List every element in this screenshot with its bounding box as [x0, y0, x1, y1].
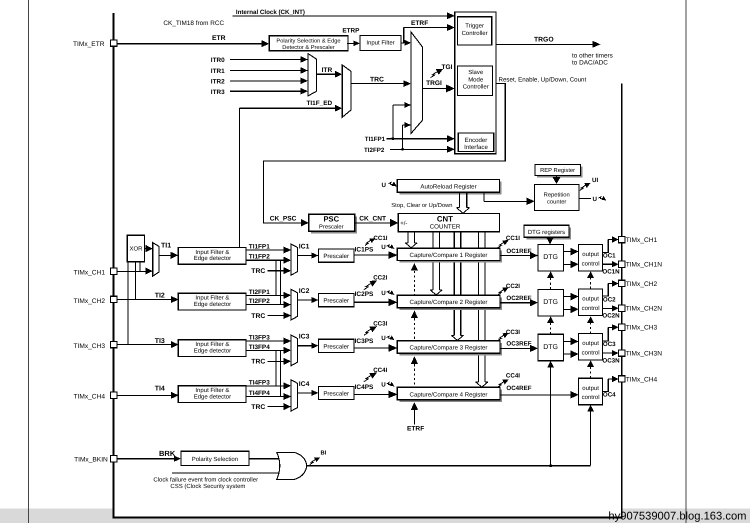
wire CSS to OR [172, 472, 284, 474]
svg-text:U: U [381, 335, 386, 342]
wire TI4FP3 [247, 385, 285, 387]
svg-text:U: U [382, 182, 387, 189]
wire IC2PS [354, 301, 390, 303]
bottom border [113, 517, 623, 519]
svg-text:IC2: IC2 [299, 288, 310, 295]
wire compare dashed to CC1 [411, 263, 418, 271]
svg-text:CC1I: CC1I [373, 235, 387, 242]
svg-text:ITR: ITR [322, 67, 333, 74]
wire TI2FP2 to mux [402, 125, 404, 149]
svg-text:CK_CNT: CK_CNT [359, 216, 386, 223]
block input filter & edge detector 1 [178, 247, 246, 264]
wire TRGI [422, 88, 447, 90]
wire compare dashed to CC3 [411, 356, 418, 364]
block output control 1 [579, 244, 603, 271]
trigger controller outer box [455, 12, 496, 154]
svg-text:TI4: TI4 [155, 386, 165, 393]
wire TI2 [117, 299, 172, 301]
register capture/compare 3 [397, 341, 502, 356]
svg-text:TRGO: TRGO [534, 37, 554, 44]
event CC2I right [498, 290, 504, 295]
svg-text:ITR0: ITR0 [211, 57, 225, 64]
svg-text:TI2FP2: TI2FP2 [364, 147, 385, 154]
block input filter [360, 35, 401, 50]
block repetition counter [535, 184, 579, 210]
event CC1I left [365, 240, 371, 245]
svg-text:to other timers: to other timers [572, 52, 613, 59]
mux TRC select [342, 65, 351, 117]
wire OC1N [603, 263, 614, 265]
svg-text:output: output [582, 341, 599, 347]
wire TI1FP1 top [387, 138, 448, 140]
svg-text:+/-: +/- [400, 220, 407, 227]
wire TI1FP2 [247, 259, 285, 261]
svg-text:Prescaler: Prescaler [323, 298, 349, 305]
svg-text:OC4REF: OC4REF [506, 385, 531, 392]
block encoder interface [458, 133, 494, 152]
pin TIMx_CH2 output [619, 280, 625, 286]
svg-text:output: output [582, 297, 599, 303]
block output control 2 [579, 289, 603, 316]
svg-text:CC4I: CC4I [373, 367, 387, 374]
wire compare dashed to CC2 [411, 310, 418, 318]
svg-text:Capture/Compare 2 Register: Capture/Compare 2 Register [410, 299, 488, 306]
pin TIMx_CH2N output [619, 305, 625, 311]
svg-text:ETR: ETR [212, 35, 226, 42]
svg-text:TIMx_CH4: TIMx_CH4 [626, 376, 658, 383]
svg-text:Internal Clock (CK_INT): Internal Clock (CK_INT) [236, 9, 305, 16]
svg-text:Edge detector: Edge detector [194, 393, 231, 400]
svg-text:Prescaler: Prescaler [323, 253, 349, 260]
svg-text:Slave: Slave [468, 69, 484, 76]
wire TIMx_CH1 to mux [117, 270, 146, 272]
wire OC3REF [500, 347, 531, 349]
wire polarity to OR [249, 458, 283, 460]
svg-text:Input Filter &: Input Filter & [195, 249, 229, 256]
wire TRC row2 [267, 315, 284, 317]
wire counter to capture/compare 4 (hollow) [478, 232, 480, 382]
wire DTG3 out b [563, 353, 571, 355]
svg-text:TRC: TRC [251, 313, 265, 320]
wire break dashed OC1 [590, 278, 592, 289]
svg-text:Input Filter &: Input Filter & [195, 295, 229, 302]
svg-text:control: control [582, 305, 600, 312]
pin TIMx_CH2 [110, 296, 116, 302]
wire DTG1 out b [563, 263, 571, 265]
svg-text:BRK: BRK [159, 449, 176, 458]
block input filter & edge detector 4 [178, 386, 246, 403]
block output control 3 [579, 334, 603, 361]
svg-text:OC3REF: OC3REF [506, 340, 531, 347]
wire XOR out [145, 248, 147, 250]
svg-text:output: output [582, 252, 599, 258]
event UI [580, 185, 586, 190]
svg-text:Detector & Prescaler: Detector & Prescaler [282, 44, 335, 51]
wire BRK [117, 458, 175, 460]
wire OC4 [603, 379, 609, 391]
svg-text:control: control [582, 260, 600, 267]
wire DTG1 out a [563, 251, 571, 253]
wire TRC row3 [267, 360, 284, 362]
wire XOR in from CH1 [139, 262, 141, 272]
block slave mode controller [458, 66, 493, 96]
block DTG 1 [538, 244, 563, 271]
svg-text:CK_PSC: CK_PSC [270, 215, 297, 222]
svg-text:Edge detector: Edge detector [194, 255, 231, 262]
svg-text:IC3: IC3 [299, 334, 310, 341]
svg-text:OC4: OC4 [603, 392, 616, 399]
event CC4I left [364, 375, 371, 381]
wire break to OC column [590, 405, 592, 466]
wire break dashed OC3 [590, 366, 592, 378]
mux trigger select [411, 32, 422, 134]
svg-text:TIMx_BKIN: TIMx_BKIN [74, 457, 108, 464]
wire TI4 [117, 394, 172, 396]
block XOR [127, 235, 144, 261]
svg-text:OC3: OC3 [603, 341, 616, 348]
left pin bus [113, 13, 115, 518]
wire break dashed OC2 [590, 322, 592, 333]
block input filter & edge detector 3 [178, 340, 246, 357]
svg-text:TIMx_CH2N: TIMx_CH2N [626, 306, 663, 313]
svg-text:Trigger: Trigger [465, 23, 484, 30]
pin TIMx_CH1N output [619, 261, 625, 267]
wire OC1REF [500, 255, 531, 257]
svg-text:output: output [582, 386, 599, 392]
diagram interior patch [115, 508, 622, 516]
svg-text:TIMx_CH1: TIMx_CH1 [626, 237, 658, 244]
svg-text:CSS (Clock Security system: CSS (Clock Security system [170, 483, 245, 490]
svg-text:Controller: Controller [462, 30, 488, 37]
svg-text:Input Filter: Input Filter [366, 40, 394, 47]
svg-text:Edge detector: Edge detector [194, 347, 231, 354]
wire TI1FP1 to mux [392, 105, 394, 139]
svg-text:Repetition: Repetition [544, 191, 570, 198]
svg-text:IC1PS: IC1PS [355, 246, 374, 253]
wire TRC row4 [267, 406, 284, 408]
wire IC1 [297, 255, 312, 257]
wire TRGO [496, 43, 593, 45]
wire TRC row1 [267, 270, 284, 272]
svg-text:Input Filter &: Input Filter & [195, 341, 229, 348]
pin TIMx_CH1 output [619, 236, 625, 242]
svg-text:TI1F_ED: TI1F_ED [307, 100, 333, 107]
svg-text:ITR1: ITR1 [211, 68, 225, 75]
svg-text:REP Register: REP Register [540, 167, 575, 174]
gray footer band [0, 508, 750, 523]
block prescaler 2 [318, 294, 354, 307]
pin TIMx_CH3N output [619, 350, 625, 356]
svg-text:DTG registers: DTG registers [528, 229, 565, 236]
svg-text:DTG: DTG [543, 344, 558, 351]
wire OC2REF [500, 302, 531, 304]
svg-text:AutoReload Register: AutoReload Register [420, 184, 476, 191]
wire IC3 [297, 345, 312, 347]
block DTG 3 [538, 334, 563, 361]
svg-text:ITR3: ITR3 [211, 89, 225, 96]
svg-text:TI3: TI3 [155, 338, 165, 345]
wire TI1FP1 [247, 249, 285, 251]
svg-text:ITR2: ITR2 [211, 78, 225, 85]
svg-text:OC2N: OC2N [602, 313, 620, 320]
svg-text:OC3N: OC3N [602, 357, 620, 364]
svg-text:ETRF: ETRF [407, 425, 424, 432]
wire IC3PS [354, 347, 390, 349]
wire TI3FP4/TI4FP3 link [275, 350, 277, 386]
svg-text:Reset, Enable, Up/Down, Count: Reset, Enable, Up/Down, Count [499, 76, 587, 83]
wire counter to capture/compare 2 (hollow) [432, 232, 434, 290]
wire ETRF to CC4 [411, 402, 418, 410]
svg-text:CC1I: CC1I [506, 235, 520, 242]
wire XOR in from CH2 [135, 262, 137, 300]
event U repetition [579, 197, 591, 199]
svg-text:COUNTER: COUNTER [430, 223, 461, 230]
wire CK_INT [233, 15, 448, 17]
svg-text:CC3I: CC3I [373, 321, 387, 328]
svg-text:ETRP: ETRP [342, 27, 360, 34]
block CNT counter [398, 213, 499, 231]
block polarity selection & edge detector & prescaler [269, 36, 348, 52]
block DTG 2 [538, 289, 563, 316]
wire XOR in from CH3 [127, 262, 129, 345]
svg-text:to DAC/ADC: to DAC/ADC [572, 59, 608, 66]
wire ETRF [401, 42, 404, 44]
wire TI1FP2/TI2FP1 link [275, 260, 277, 295]
mux ITR select [308, 54, 317, 96]
wire DTG registers to DTG1 [549, 237, 551, 238]
wire ETRP [347, 42, 355, 44]
svg-text:UI: UI [592, 177, 598, 184]
block polarity selection [181, 451, 249, 465]
wire TI4FP4 [247, 396, 285, 398]
event BI [310, 460, 316, 465]
right frame line [685, 0, 687, 523]
wire OC3 [603, 327, 609, 341]
block REP register [535, 165, 583, 178]
svg-text:CNT: CNT [437, 214, 453, 223]
wire DTG2 out a [563, 296, 571, 298]
event CC4I right [498, 382, 504, 387]
svg-text:TIMx_ETR: TIMx_ETR [73, 41, 105, 48]
svg-text:Prescaler: Prescaler [323, 391, 349, 398]
svg-text:Prescaler: Prescaler [319, 224, 344, 231]
svg-text:IC4PS: IC4PS [355, 384, 374, 391]
svg-text:TRC: TRC [251, 404, 265, 411]
mux IC1 select [291, 244, 297, 275]
svg-text:TIMx_CH2: TIMx_CH2 [73, 298, 105, 305]
pin TIMx_CH1 [110, 268, 116, 274]
wire IC4PS [354, 393, 390, 395]
svg-text:TIMx_CH4: TIMx_CH4 [73, 394, 105, 401]
svg-text:Capture/Compare 4 Register: Capture/Compare 4 Register [410, 391, 488, 398]
svg-text:Polarity Selection: Polarity Selection [192, 456, 238, 463]
mux TI1 select [153, 243, 159, 277]
svg-text:TGI: TGI [442, 64, 453, 71]
register capture/compare 4 [397, 387, 502, 402]
wire IC1PS [354, 254, 390, 256]
wire TI2FP2 [247, 304, 285, 306]
block prescaler 3 [318, 339, 354, 352]
svg-text:TIMx_CH3N: TIMx_CH3N [626, 351, 663, 358]
svg-text:OC2: OC2 [603, 296, 616, 303]
block prescaler 1 [318, 249, 354, 262]
gate OR break [277, 452, 307, 479]
svg-text:counter: counter [547, 200, 566, 206]
svg-text:OC1N: OC1N [602, 268, 620, 275]
svg-text:U: U [381, 290, 386, 297]
svg-text:IC2PS: IC2PS [355, 291, 374, 298]
svg-text:TIMx_CH1N: TIMx_CH1N [626, 262, 663, 269]
pin TIMx_CH4 output [619, 376, 625, 382]
wire counter to capture/compare 3 (hollow) [453, 232, 455, 336]
svg-text:Input Filter &: Input Filter & [195, 387, 229, 394]
wire TI2FP1/TI2FP2 link [279, 260, 281, 304]
svg-text:XOR: XOR [129, 246, 143, 253]
svg-text:TRGI: TRGI [426, 80, 442, 87]
mux IC3 select [291, 335, 297, 366]
block DTG registers [524, 225, 571, 239]
svg-text:IC3PS: IC3PS [355, 338, 374, 345]
svg-text:TRC: TRC [251, 359, 265, 366]
svg-text:Interface: Interface [464, 144, 488, 151]
svg-text:ETRF: ETRF [411, 20, 428, 27]
svg-text:TIMx_CH3: TIMx_CH3 [73, 343, 105, 350]
svg-text:TRC: TRC [370, 76, 384, 83]
block trigger controller [458, 17, 492, 45]
left frame line [28, 0, 30, 523]
svg-text:Capture/Compare 1 Register: Capture/Compare 1 Register [410, 252, 488, 259]
wire OC1 [603, 240, 609, 253]
svg-text:Stop, Clear or Up/Down: Stop, Clear or Up/Down [391, 202, 452, 209]
block input filter & edge detector 2 [178, 293, 246, 310]
wire OC2 [603, 284, 609, 297]
wire break to DTG column [550, 361, 552, 466]
wire BI [306, 465, 590, 467]
pin TIMx_CH4 [110, 392, 116, 398]
svg-text:IC4: IC4 [299, 381, 310, 388]
wire IC2 [297, 299, 312, 301]
wire ITR1 [230, 70, 301, 72]
wire TI3FP4 [247, 349, 285, 351]
pin TIMx_CH3 output [619, 324, 625, 330]
wire CK_PSC feed [263, 84, 505, 223]
block auto-reload register [397, 180, 502, 195]
mux IC2 select [291, 289, 297, 320]
wire DTG3 out a [563, 340, 571, 342]
svg-text:control: control [582, 350, 600, 357]
wire TI2FP2 top [390, 148, 448, 150]
block PSC prescaler [309, 214, 357, 233]
svg-text:BI: BI [321, 450, 327, 456]
svg-text:CC2I: CC2I [373, 275, 387, 282]
register capture/compare 2 [397, 295, 502, 310]
wire autoreload to repetition counter [483, 192, 485, 201]
event CC1I right [498, 243, 504, 248]
wire REP to repetition counter [556, 176, 558, 178]
wire break dashed DTG2 [550, 322, 552, 334]
wire ETR [117, 43, 263, 45]
svg-text:TIMx_CH2: TIMx_CH2 [626, 281, 658, 288]
mux IC4 select [291, 380, 297, 411]
svg-text:OC1REF: OC1REF [506, 248, 531, 255]
wire OC4REF [500, 394, 571, 396]
event CC2I left [364, 283, 371, 289]
svg-text:control: control [582, 394, 600, 401]
pin TIMx_ETR [110, 40, 116, 46]
wire TI1F_ED [239, 108, 241, 247]
wire TI3FP4/TI4FP4 link [279, 350, 281, 396]
svg-text:CC4I: CC4I [506, 373, 520, 380]
svg-text:IC1: IC1 [299, 244, 310, 251]
svg-text:TIMx_CH1: TIMx_CH1 [73, 270, 105, 277]
svg-text:Prescaler: Prescaler [323, 343, 349, 350]
pin TIMx_BKIN [110, 456, 116, 462]
wire autoreload to counter [458, 192, 460, 208]
event TGI [431, 72, 438, 78]
wire ITR2 [230, 80, 301, 82]
svg-text:U: U [593, 196, 598, 203]
svg-text:TRC: TRC [251, 268, 265, 275]
wire IC4 [297, 392, 312, 394]
svg-text:OC2REF: OC2REF [506, 295, 531, 302]
pin TIMx_CH3 [110, 341, 116, 347]
wire TI2FP1 [247, 294, 285, 296]
svg-text:PSC: PSC [323, 215, 339, 224]
right pin bus [621, 84, 623, 518]
svg-text:Polarity Selection & Edge: Polarity Selection & Edge [276, 38, 340, 45]
svg-text:CC2I: CC2I [506, 283, 520, 290]
svg-text:hy907539007.blog.163.com: hy907539007.blog.163.com [608, 510, 746, 522]
svg-text:U: U [381, 382, 386, 389]
wire ITR0 [230, 59, 301, 61]
wire OC3N [603, 352, 614, 354]
svg-text:OC1: OC1 [603, 253, 616, 260]
block output control 4 [579, 378, 603, 405]
svg-text:CC3I: CC3I [506, 329, 520, 336]
wire DTG2 out b [563, 308, 571, 310]
svg-text:Clock failure event from clock: Clock failure event from clock controlle… [153, 476, 258, 483]
wire CK_CNT [355, 222, 392, 224]
svg-text:Capture/Compare 3 Register: Capture/Compare 3 Register [410, 345, 488, 352]
event CC3I left [364, 329, 371, 335]
wire TI3 [117, 344, 172, 346]
svg-text:TI1FP1: TI1FP1 [365, 136, 386, 143]
wire counter to capture/compare 1 (hollow) [407, 232, 409, 243]
svg-text:U: U [381, 244, 386, 251]
svg-text:Edge detector: Edge detector [194, 301, 231, 308]
register capture/compare 1 [397, 248, 502, 263]
svg-text:Controller: Controller [463, 84, 489, 91]
wire TRC top [351, 83, 405, 85]
wire TI1 [159, 254, 172, 256]
svg-text:TI1: TI1 [161, 243, 171, 250]
wire OC2N [603, 307, 614, 309]
wire TI3FP3 [247, 340, 285, 342]
svg-text:CK_TIM18 from RCC: CK_TIM18 from RCC [163, 20, 224, 27]
block prescaler 4 [318, 386, 354, 399]
svg-text:Mode: Mode [468, 76, 484, 83]
svg-text:DTG: DTG [543, 299, 558, 306]
event CC3I right [498, 335, 504, 340]
svg-text:TI2: TI2 [155, 293, 165, 300]
wire ITR [317, 73, 337, 75]
wire ITR3 [230, 90, 301, 92]
wire break dashed DTG1 [550, 278, 552, 290]
svg-text:TIMx_CH3: TIMx_CH3 [626, 325, 658, 332]
svg-text:DTG: DTG [543, 254, 558, 261]
